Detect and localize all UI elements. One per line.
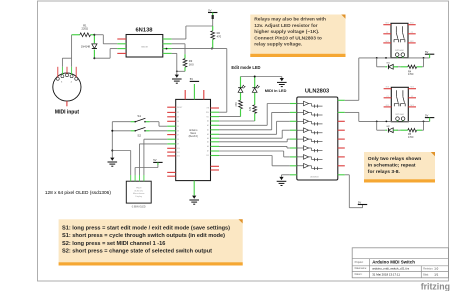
svg-text:NO1: NO1 <box>386 87 390 89</box>
svg-text:relay supply voltage.: relay supply voltage. <box>254 42 303 48</box>
svg-text:1N4148: 1N4148 <box>81 44 91 48</box>
label ULN2803 <box>305 89 329 95</box>
wire MIDI pin4 to R1 <box>71 35 73 67</box>
wire opto pin6 to Arduino RX <box>172 49 227 113</box>
svg-text:R2: R2 <box>217 31 221 35</box>
power 5V relay K2 <box>425 113 434 121</box>
OLED display module <box>126 175 151 203</box>
svg-text:NC2: NC2 <box>410 105 413 107</box>
label D2 <box>387 126 391 128</box>
wire Arduino GND to ground <box>193 188 195 196</box>
ground Arduino <box>189 196 199 205</box>
label 470 midi <box>249 106 252 111</box>
label R2 470 <box>217 31 222 38</box>
node junction R2 bottom <box>211 48 213 50</box>
switch S1 <box>131 118 150 122</box>
wire relay K2 coil legs <box>398 120 404 123</box>
svg-text:470: 470 <box>249 106 252 111</box>
svg-text:Blatt:: Blatt: <box>423 273 429 276</box>
label MIDI in LED <box>265 88 287 93</box>
node opto pin6 <box>166 48 168 50</box>
wire OLED VCC to 5V <box>135 162 158 175</box>
svg-text:Arduino MIDI Switch: Arduino MIDI Switch <box>372 260 415 265</box>
svg-text:D5: D5 <box>177 126 179 128</box>
resistor R4 4700 <box>400 65 422 68</box>
svg-text:1/1: 1/1 <box>434 272 438 276</box>
ground LEDs <box>277 78 287 87</box>
svg-text:4700: 4700 <box>408 136 414 139</box>
node junction R1-D1 top <box>93 34 95 36</box>
wire relay K1 coil to 5V <box>403 57 430 58</box>
svg-text:1.0: 1.0 <box>434 266 438 270</box>
wire relay K1 flyback <box>377 58 424 67</box>
ground ULN <box>277 177 287 186</box>
svg-text:470: 470 <box>217 35 222 39</box>
op-amp U2 6N138 optocoupler <box>117 35 171 58</box>
svg-text:RX0: RX0 <box>206 112 209 114</box>
svg-text:5V: 5V <box>208 8 211 12</box>
svg-text:D11: D11 <box>177 152 180 154</box>
wire Arduino to ULN in5 <box>219 139 290 142</box>
wire LED2 to Arduino <box>219 120 255 122</box>
wire 5V to R2 and opto pin8 <box>172 19 213 39</box>
wire relay K1 coil legs <box>397 57 403 58</box>
svg-text:6N138: 6N138 <box>135 28 153 34</box>
diode D relay2 <box>385 128 398 133</box>
svg-text:MIDI input: MIDI input <box>55 110 79 116</box>
svg-text:D9: D9 <box>177 144 179 146</box>
label 128x64 OLED <box>45 190 111 196</box>
svg-text:1K0: 1K0 <box>189 62 194 66</box>
resistor R2 470 <box>211 26 215 49</box>
label S1 <box>137 114 141 118</box>
power 5V Arduino VCC <box>190 77 199 81</box>
wire ULN out2 to relay K2 coil <box>345 112 398 121</box>
svg-text:ULN2803: ULN2803 <box>310 177 319 179</box>
wire R3 bottom to gnd <box>176 70 185 72</box>
resistor R edit 470 <box>239 100 243 116</box>
ground switches/OLED <box>108 158 118 167</box>
wire ULN COM to 5V <box>345 175 363 208</box>
svg-text:(Rev3.0): (Rev3.0) <box>189 135 198 138</box>
relay K1 <box>383 23 415 58</box>
svg-text:12v. Adjust LED resistor for: 12v. Adjust LED resistor for <box>254 23 317 29</box>
node relay K1 flyback right <box>423 57 425 59</box>
wire OLED GND <box>112 151 130 176</box>
label R4 4700 <box>408 71 414 77</box>
wire MIDI pin2 <box>62 58 71 67</box>
note box relays 12v <box>250 15 345 58</box>
label MIDI input <box>55 110 79 116</box>
svg-text:31 Mai 2018 13:17:11: 31 Mai 2018 13:17:11 <box>372 272 400 276</box>
svg-text:for relays 3-8.: for relays 3-8. <box>368 169 401 175</box>
wire Arduino to ULN in8 <box>219 156 290 166</box>
svg-text:MIDI in LED: MIDI in LED <box>265 88 287 93</box>
svg-text:S1: S1 <box>137 114 141 118</box>
svg-text:128 x 64 pixel OLED (ssd1306): 128 x 64 pixel OLED (ssd1306) <box>45 190 111 196</box>
svg-text:Edit mode LED: Edit mode LED <box>231 65 260 70</box>
node S2 gnd junction <box>111 130 113 132</box>
label R1 220 <box>82 23 89 30</box>
wire LEDs to ground <box>241 77 282 79</box>
svg-text:D2: D2 <box>177 112 179 114</box>
svg-text:R3: R3 <box>189 59 193 63</box>
svg-text:220Ω: 220Ω <box>82 27 89 31</box>
wire Arduino to ULN in1 <box>219 104 290 126</box>
svg-text:PM09: PM09 <box>136 188 142 190</box>
label 6N138 <box>135 28 153 34</box>
svg-text:fritzing: fritzing <box>421 281 450 291</box>
label R5 4700 <box>408 133 414 139</box>
svg-text:Display: Display <box>135 196 142 198</box>
ground opto <box>172 75 182 84</box>
power 5V relay K1 <box>425 50 434 58</box>
svg-text:higher supply voltage (~1K).: higher supply voltage (~1K). <box>254 29 320 35</box>
diode 1N4148 <box>92 35 97 58</box>
svg-text:4700: 4700 <box>408 73 414 76</box>
svg-text:D13: D13 <box>206 155 209 157</box>
wire opto pin5 to ground <box>172 53 177 74</box>
svg-text:D4: D4 <box>177 121 179 123</box>
node relay K2 flyback right <box>423 121 425 123</box>
diode D relay1 <box>385 64 398 69</box>
svg-text:D3: D3 <box>177 117 179 119</box>
svg-text:Projekt:: Projekt: <box>355 260 364 264</box>
svg-text:NO2: NO2 <box>410 23 414 25</box>
note box only two relays <box>364 152 435 183</box>
svg-text:TX1: TX1 <box>206 116 209 118</box>
wire D1 top to opto pin2 <box>94 35 117 44</box>
svg-text:RESET: RESET <box>177 107 182 109</box>
svg-text:ULN2803: ULN2803 <box>305 89 329 95</box>
wire OLED SDA to Arduino <box>144 139 167 175</box>
svg-text:DIPT-2xNO: DIPT-2xNO <box>395 50 404 52</box>
LED edit mode <box>238 77 245 101</box>
wire S1 to Arduino <box>150 122 168 127</box>
node junction D1 bottom <box>93 57 95 59</box>
label S2 <box>137 134 141 138</box>
svg-text:Revision:: Revision: <box>423 267 433 270</box>
svg-text:5V: 5V <box>425 50 428 54</box>
wire S2 to Arduino <box>150 130 168 132</box>
wire Arduino to ULN in2 <box>219 112 290 129</box>
svg-text:5V: 5V <box>425 113 428 117</box>
wire relay K2 flyback <box>377 121 424 130</box>
resistor R5 4700 <box>400 129 422 132</box>
LED midi in <box>252 77 259 105</box>
svg-text:C2: C2 <box>411 32 413 34</box>
svg-text:5V: 5V <box>358 200 361 204</box>
resistor R3 1K0 <box>183 54 187 71</box>
node LED gnd junction <box>254 76 256 78</box>
label Edit mode LED <box>231 65 260 70</box>
svg-text:Only two relays shown: Only two relays shown <box>368 156 422 162</box>
svg-text:OLED I2C: OLED I2C <box>134 190 144 192</box>
wire Arduino to ULN in4 <box>219 130 290 138</box>
IC U3 ULN2803 <box>290 97 345 180</box>
svg-text:NC1: NC1 <box>386 41 389 43</box>
svg-text:Relays may also be driven with: Relays may also be driven with <box>254 17 326 23</box>
title block <box>352 248 448 278</box>
wire relay K2 coil to 5V <box>403 120 430 121</box>
wire LED1 to Arduino <box>219 116 241 118</box>
svg-text:C2: C2 <box>411 96 413 98</box>
Arduino Nano U1 <box>167 84 219 188</box>
label D1 <box>387 62 391 64</box>
svg-text:470: 470 <box>235 102 238 107</box>
power 5V top <box>208 8 217 19</box>
label 470 edit <box>235 102 238 107</box>
wire Arduino to ULN in6 <box>219 146 290 148</box>
wire opto pin7 to R3 <box>172 44 185 54</box>
svg-text:D12: D12 <box>177 156 180 158</box>
svg-text:0.96IN-OLED: 0.96IN-OLED <box>132 207 146 209</box>
wire Arduino to ULN in3 <box>219 121 290 134</box>
svg-text:5V: 5V <box>153 158 156 162</box>
MIDI input DIN-5 connector J1 <box>53 67 81 107</box>
label 1N4148 <box>81 44 91 48</box>
svg-text:D10: D10 <box>177 148 180 150</box>
note box S1 S2 <box>59 219 243 265</box>
svg-text:S2: short press = change state: S2: short press = change state of select… <box>62 249 212 255</box>
node OLED gnd junction <box>111 150 113 152</box>
svg-text:S1: short press = cycle throug: S1: short press = cycle through switch o… <box>62 233 225 239</box>
svg-text:5V: 5V <box>190 77 193 81</box>
fritzing logo <box>421 281 450 291</box>
switch S2 <box>131 127 150 131</box>
svg-text:NC2: NC2 <box>410 41 413 43</box>
svg-text:S1: long press = start edit mo: S1: long press = start edit mode / exit … <box>62 226 230 232</box>
svg-text:Datum:: Datum: <box>355 273 363 276</box>
svg-text:6N138: 6N138 <box>141 47 148 49</box>
power 5V OLED <box>153 158 162 165</box>
svg-text:Monochrome: Monochrome <box>133 193 146 195</box>
svg-text:S2: long press = set MIDI chan: S2: long press = set MIDI channel 1 -16 <box>62 241 165 247</box>
svg-text:C1: C1 <box>386 32 388 34</box>
wire Arduino to ULN in7 <box>219 151 290 157</box>
wire ULN out1 to relay K1 coil <box>345 58 397 100</box>
resistor R1 220 <box>72 33 95 37</box>
svg-text:NO2: NO2 <box>410 87 414 89</box>
svg-text:DIPT-2xNO: DIPT-2xNO <box>395 114 404 116</box>
label OLED part <box>132 207 146 209</box>
svg-text:Dateiname:: Dateiname: <box>355 267 368 270</box>
svg-text:NC1: NC1 <box>386 105 389 107</box>
wire S1 S2 to gnd bus <box>112 122 130 158</box>
svg-text:D8: D8 <box>177 139 179 141</box>
relay K2 <box>384 87 416 122</box>
wire OLED SCL to Arduino <box>140 144 168 175</box>
svg-text:C1: C1 <box>386 96 388 98</box>
wire ULN GND to ground <box>282 175 290 177</box>
wire D1 bottom to opto pin3 <box>94 49 117 59</box>
node relay K2 flyback left <box>376 121 387 123</box>
node relay K1 flyback left <box>376 57 387 59</box>
resistor R midi 470 <box>253 105 257 121</box>
svg-text:D7: D7 <box>177 134 179 136</box>
svg-text:Connect Pin10 of ULN2803 to: Connect Pin10 of ULN2803 to <box>254 35 322 41</box>
svg-text:NO1: NO1 <box>385 23 389 25</box>
svg-text:S2: S2 <box>137 134 141 138</box>
label R3 1K0 <box>189 59 194 66</box>
power 5V ULN COM <box>358 200 367 204</box>
svg-text:in schematic; repeat: in schematic; repeat <box>368 162 416 168</box>
svg-text:arduino_midi_switch_v21.fzz: arduino_midi_switch_v21.fzz <box>372 266 410 270</box>
svg-text:D6: D6 <box>177 131 179 133</box>
